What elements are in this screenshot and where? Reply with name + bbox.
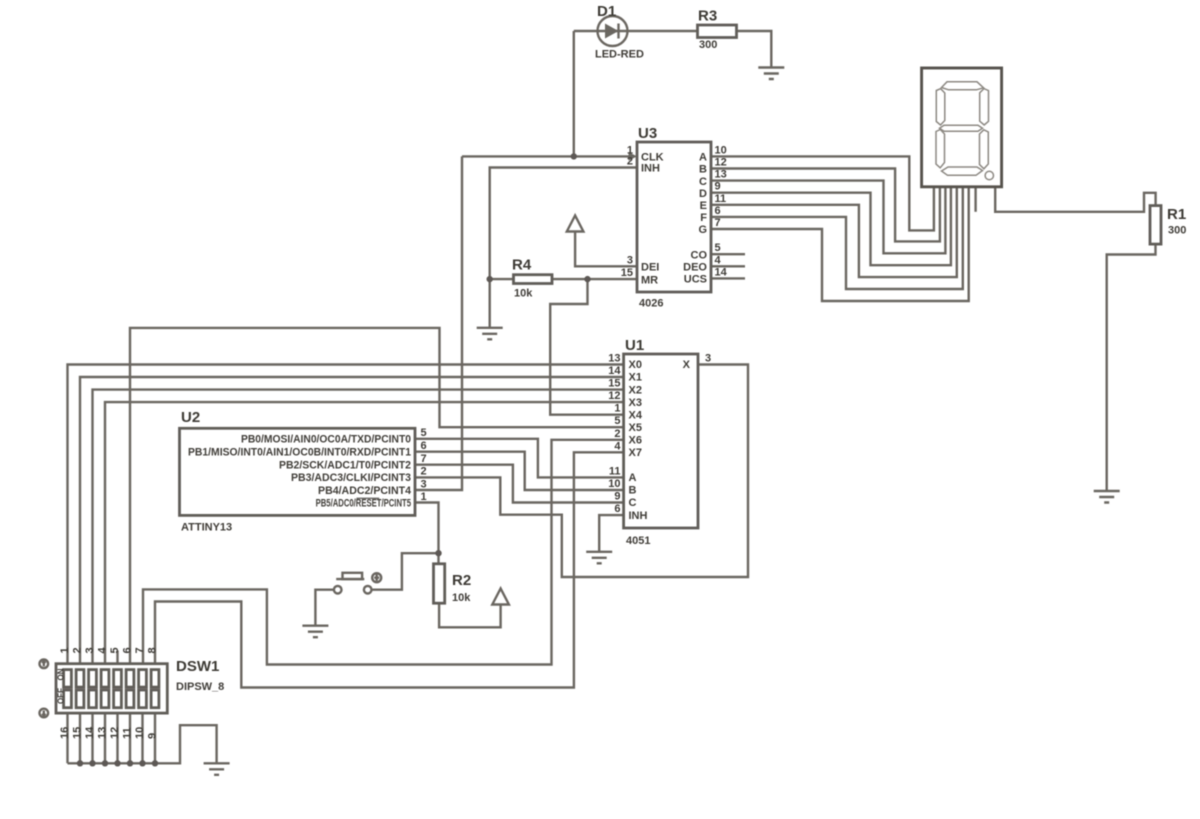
svg-text:14: 14 [608, 365, 621, 377]
push button [334, 573, 381, 594]
wire U3 A to display [711, 156, 934, 230]
svg-text:PB4/ADC2/PCINT4: PB4/ADC2/PCINT4 [318, 485, 412, 497]
wire U3 DEO stub [711, 265, 745, 267]
DSW switches [64, 670, 159, 708]
wire DIP6 to U1 X5 [130, 328, 624, 664]
7seg segment b [980, 89, 989, 125]
svg-text:1: 1 [614, 403, 620, 415]
svg-text:12: 12 [109, 727, 121, 739]
resistor R4 [514, 275, 553, 284]
svg-text:4051: 4051 [626, 535, 650, 547]
DSW actuator circle bottom [40, 709, 49, 718]
junction dot R4 left / INH riser [487, 276, 493, 282]
svg-text:5: 5 [715, 242, 721, 254]
svg-text:U3: U3 [638, 125, 657, 142]
svg-text:INH: INH [629, 510, 648, 522]
svg-text:ATTINY13: ATTINY13 [181, 522, 232, 534]
wire U2 PB2 to U1 C [415, 465, 624, 503]
wire MR jog down to U1 X4 row [550, 279, 623, 415]
svg-text:15: 15 [72, 727, 84, 739]
svg-text:6: 6 [715, 205, 721, 217]
7seg segment f [936, 89, 945, 125]
svg-text:9: 9 [715, 181, 721, 193]
svg-text:D: D [699, 188, 707, 200]
svg-text:C: C [699, 176, 707, 188]
7seg decimal point [985, 171, 993, 179]
U3 CLK input triangle [629, 152, 638, 161]
svg-text:X5: X5 [629, 422, 642, 434]
svg-text:PB0/MOSI/AIN0/OC0A/TXD/PCINT0: PB0/MOSI/AIN0/OC0A/TXD/PCINT0 [241, 434, 411, 446]
svg-text:10k: 10k [514, 288, 533, 300]
svg-text:DEI: DEI [641, 262, 659, 274]
svg-text:8: 8 [147, 647, 159, 653]
wire U3 G to display [711, 187, 969, 301]
svg-text:14: 14 [715, 266, 728, 278]
ground below R3 [758, 68, 784, 80]
wire R3 to ground [737, 31, 772, 68]
ground below U1 INH [586, 552, 612, 564]
svg-text:16: 16 [59, 727, 71, 739]
svg-text:12: 12 [608, 390, 620, 402]
svg-text:DSW1: DSW1 [176, 658, 219, 675]
svg-text:E: E [700, 200, 707, 212]
wire DIP8 to U1 X7 [155, 452, 624, 687]
svg-text:7: 7 [134, 647, 146, 653]
wire INH row U3 pin 2 and riser to R4/ground [490, 168, 637, 328]
svg-text:PB2/SCK/ADC1/T0/PCINT2: PB2/SCK/ADC1/T0/PCINT2 [279, 460, 411, 472]
svg-text:X4: X4 [629, 409, 643, 421]
wire DIP1 to U1 X0 [68, 365, 624, 664]
VCC power arrow (DEI) [567, 216, 584, 232]
svg-text:CO: CO [691, 249, 708, 261]
wire DIP5 stub [116, 651, 118, 664]
wire DIP2 to U1 X1 [80, 377, 624, 664]
DSW actuator circle top [40, 660, 49, 669]
wire D1 anode vertical to CLK net [573, 31, 575, 156]
svg-text:1: 1 [59, 647, 71, 653]
op-amp U3 box (4026 counter) [637, 142, 711, 292]
svg-text:7: 7 [421, 453, 427, 465]
svg-text:PB1/MISO/INT0/AIN1/OC0B/INT0/R: PB1/MISO/INT0/AIN1/OC0B/INT0/RXD/PCINT1 [188, 447, 411, 459]
svg-text:4: 4 [715, 254, 722, 266]
svg-text:F: F [700, 212, 707, 224]
svg-text:MR: MR [641, 274, 658, 286]
svg-text:R1: R1 [1167, 206, 1186, 223]
ground below R1 [1094, 491, 1120, 503]
svg-text:3: 3 [84, 647, 96, 653]
svg-text:300: 300 [699, 39, 717, 51]
svg-text:R2: R2 [452, 572, 471, 589]
svg-text:2: 2 [421, 466, 427, 478]
wire U3 UCS stub [711, 277, 745, 279]
svg-text:ON: ON [56, 668, 65, 680]
svg-text:5: 5 [109, 647, 121, 653]
svg-text:3: 3 [421, 478, 427, 490]
wire display common pin to R1 [995, 187, 1155, 212]
svg-text:300: 300 [1168, 225, 1186, 237]
svg-text:4: 4 [614, 440, 621, 452]
svg-text:D1: D1 [597, 3, 616, 20]
svg-text:10: 10 [715, 144, 727, 156]
svg-text:X0: X0 [629, 359, 642, 371]
svg-text:DEO: DEO [683, 262, 707, 274]
svg-text:2: 2 [614, 428, 620, 440]
wire U1 INH to ground [599, 515, 623, 552]
svg-text:10: 10 [134, 727, 146, 739]
svg-text:14: 14 [84, 726, 96, 739]
resistor R2 [434, 564, 445, 603]
svg-text:X3: X3 [629, 397, 642, 409]
svg-text:5: 5 [614, 415, 620, 427]
wire CLK row (U3 pin 1) [462, 155, 634, 157]
wire U3 F to display [711, 187, 963, 289]
svg-text:X7: X7 [629, 447, 642, 459]
wire DIP7 to U1 X6 [143, 440, 624, 665]
svg-text:11: 11 [122, 727, 134, 739]
VCC power arrow (R2) [492, 589, 509, 605]
wire D1 to R3 [628, 30, 698, 32]
svg-text:10: 10 [608, 478, 620, 490]
7seg segment e [936, 130, 945, 168]
wire D1 left [574, 30, 598, 32]
svg-text:R4: R4 [512, 257, 532, 274]
svg-text:6: 6 [614, 503, 620, 515]
wire display free pin [974, 187, 976, 212]
junction dot MR [584, 276, 590, 282]
svg-text:U1: U1 [625, 337, 644, 354]
ground below R4/INH riser [477, 328, 503, 340]
svg-text:C: C [629, 497, 637, 509]
wire PB4 riser to CLK [415, 156, 462, 490]
svg-text:10k: 10k [452, 592, 471, 604]
svg-text:X2: X2 [629, 384, 642, 396]
wire U3 CO stub [711, 253, 745, 255]
U1 box (4051 mux) [624, 354, 698, 528]
wire U3 E to display [711, 187, 957, 277]
wire junction to button [372, 553, 439, 590]
7-segment display box [922, 68, 1002, 187]
svg-text:X: X [683, 359, 691, 371]
wire DSW bottom stubs [68, 713, 156, 763]
svg-text:DIPSW_8: DIPSW_8 [176, 681, 224, 693]
wire U3 D to display [711, 187, 951, 265]
svg-text:4: 4 [97, 647, 109, 654]
svg-text:PB5/ADC0/RESET/PCINT5: PB5/ADC0/RESET/PCINT5 [316, 497, 411, 509]
wire U3 C to display [711, 181, 945, 254]
svg-text:9: 9 [614, 491, 620, 503]
svg-text:13: 13 [97, 727, 109, 739]
svg-text:15: 15 [608, 378, 620, 390]
svg-text:2: 2 [627, 156, 633, 168]
wire U3 DEI to VCC arrow [575, 232, 637, 267]
wire DIP3 to U1 X2 [93, 390, 624, 664]
wire R2 bottom to VCC arrow [439, 603, 501, 627]
wire DSW ground bus [68, 725, 217, 763]
svg-text:OFF: OFF [56, 688, 65, 704]
RESET overline [357, 497, 380, 499]
junction dot D1/CLK [571, 153, 577, 159]
svg-text:4026: 4026 [639, 298, 663, 310]
svg-text:U2: U2 [181, 409, 200, 426]
svg-text:B: B [699, 164, 707, 176]
ground button left [302, 626, 328, 638]
svg-text:3: 3 [627, 254, 633, 266]
junction dots DSW bus [77, 760, 83, 766]
svg-text:9: 9 [147, 733, 159, 739]
svg-text:PB3/ADC3/CLKI/PCINT3: PB3/ADC3/CLKI/PCINT3 [291, 472, 411, 484]
svg-text:13: 13 [715, 169, 727, 181]
svg-text:13: 13 [608, 353, 620, 365]
svg-text:LED-RED: LED-RED [595, 49, 644, 61]
svg-text:INH: INH [641, 163, 660, 175]
wire U2 PB1 to U1 B [415, 452, 624, 490]
junction dot PB5/R2/button [435, 550, 441, 556]
svg-text:B: B [629, 485, 637, 497]
7seg segment g [940, 125, 983, 131]
svg-text:X1: X1 [629, 372, 642, 384]
svg-text:7: 7 [715, 217, 721, 229]
7seg segment c [980, 130, 989, 169]
7seg segment a [942, 82, 984, 90]
wire U3 B to display [711, 169, 940, 242]
svg-text:3: 3 [705, 353, 711, 365]
resistor R1 [1150, 206, 1161, 245]
svg-text:11: 11 [715, 193, 727, 205]
wire R4 left link [490, 278, 514, 280]
wire button left to ground [315, 590, 334, 626]
svg-text:G: G [698, 224, 707, 236]
svg-text:5: 5 [421, 427, 427, 439]
U2 box (ATTINY13) [180, 428, 416, 515]
svg-text:A: A [699, 152, 707, 164]
LED D1 [598, 16, 628, 46]
svg-text:1: 1 [421, 491, 427, 503]
svg-text:UCS: UCS [684, 274, 707, 286]
resistor R3 [698, 25, 737, 38]
svg-text:6: 6 [421, 440, 427, 452]
svg-text:A: A [629, 472, 637, 484]
svg-text:2: 2 [72, 647, 84, 653]
svg-text:15: 15 [621, 267, 633, 279]
svg-text:R3: R3 [698, 8, 717, 25]
wire R4 right to U3 MR [552, 278, 637, 280]
DSW1 box (DIPSW_8) [56, 664, 167, 713]
ground DSW bus [204, 763, 230, 775]
wire U2 PB3 to U1 X output loop [415, 365, 748, 578]
svg-text:12: 12 [715, 157, 727, 169]
wire DIP4 to U1 X3 [105, 402, 624, 664]
svg-text:X6: X6 [629, 435, 642, 447]
7seg segment d [942, 167, 983, 175]
wire U2 PB5 to R2 top [415, 503, 439, 564]
wire R1 bottom to ground [1107, 244, 1156, 491]
svg-text:11: 11 [609, 465, 621, 477]
wire U2 PB0 to U1 A [415, 439, 624, 478]
svg-text:6: 6 [122, 647, 134, 653]
